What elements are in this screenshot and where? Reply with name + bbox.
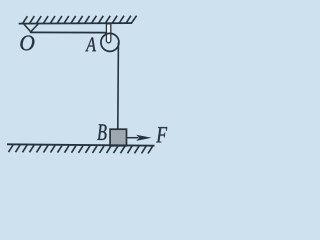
rope [117, 42, 120, 129]
pin support triangle at O [24, 24, 38, 32]
ceiling hatching [23, 16, 137, 24]
label O [20, 36, 34, 51]
ceiling line [19, 22, 132, 25]
ground hatching [9, 145, 153, 154]
force arrow F [127, 137, 138, 139]
ground line [7, 144, 155, 145]
label F [156, 127, 167, 142]
label B [97, 124, 106, 140]
pulley bracket [106, 24, 110, 43]
bar OA [30, 31, 109, 33]
block B [110, 129, 126, 146]
physics diagram: pulley at A hung from ceiling, bar OA, block B pulled by force F [0, 0, 172, 180]
label A [85, 38, 96, 52]
pulley circle at A [101, 33, 119, 51]
